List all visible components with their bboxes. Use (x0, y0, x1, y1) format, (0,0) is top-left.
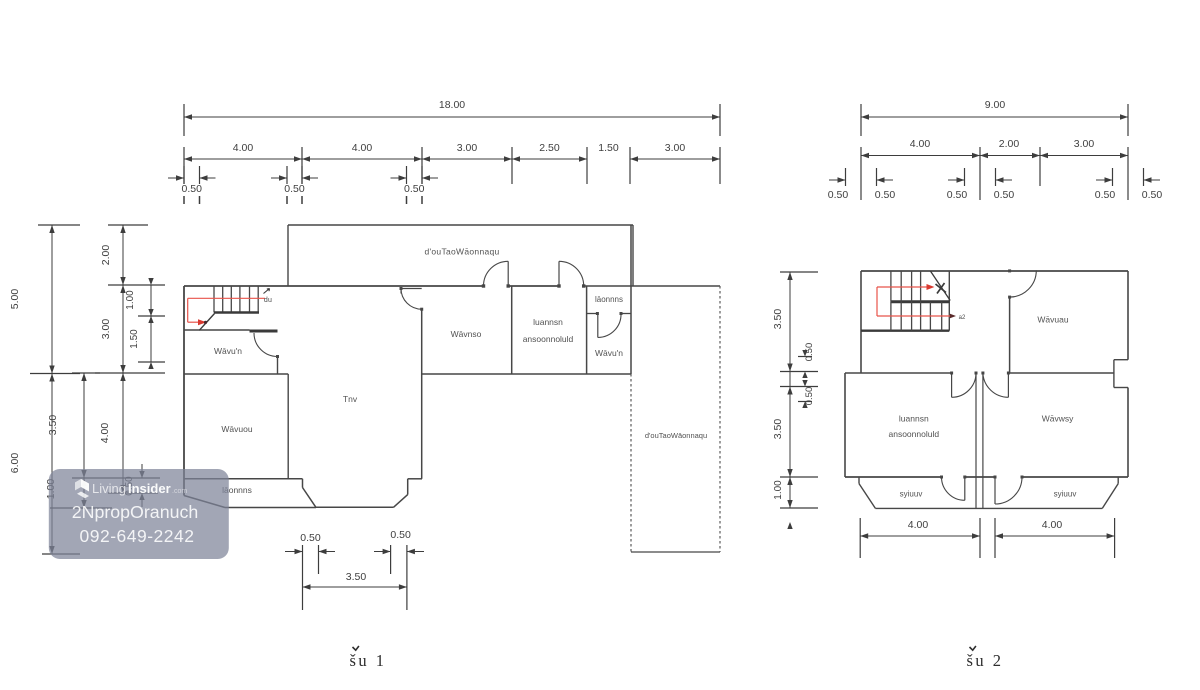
svg-text:4.00: 4.00 (1042, 519, 1063, 531)
svg-text:0.50: 0.50 (390, 529, 411, 541)
svg-text:0.50: 0.50 (1095, 189, 1116, 201)
svg-text:šu 2: šu 2 (966, 651, 1003, 670)
svg-text:3.00: 3.00 (100, 319, 112, 340)
svg-text:3.00: 3.00 (1074, 138, 1095, 150)
svg-text:3.50: 3.50 (47, 415, 59, 436)
svg-text:0.50: 0.50 (300, 532, 321, 544)
svg-text:0.50: 0.50 (947, 189, 968, 201)
svg-text:luannsn: luannsn (533, 317, 563, 327)
svg-text:Wāvu'n: Wāvu'n (214, 346, 242, 356)
svg-text:0.50: 0.50 (1142, 189, 1163, 201)
svg-text:Insider: Insider (128, 481, 171, 496)
svg-text:6.00: 6.00 (9, 453, 21, 474)
svg-text:Wāvnso: Wāvnso (451, 329, 482, 339)
svg-text:syiuuv: syiuuv (900, 489, 923, 498)
svg-text:a2: a2 (959, 315, 966, 321)
svg-text:4.00: 4.00 (99, 423, 111, 444)
svg-text:lāonnns: lāonnns (595, 295, 623, 304)
svg-text:0.50: 0.50 (804, 343, 815, 362)
svg-text:Wāvuau: Wāvuau (1037, 315, 1068, 325)
svg-text:syiuuv: syiuuv (1054, 489, 1077, 498)
svg-text:18.00: 18.00 (439, 99, 465, 111)
svg-text:5.00: 5.00 (9, 289, 21, 310)
svg-text:d'ouTaoWāonnaqu: d'ouTaoWāonnaqu (645, 431, 707, 440)
svg-text:1.50: 1.50 (598, 142, 619, 154)
svg-text:4.00: 4.00 (352, 142, 373, 154)
svg-text:092-649-2242: 092-649-2242 (80, 526, 195, 546)
svg-text:du: du (264, 297, 272, 304)
svg-text:1.50: 1.50 (129, 329, 140, 349)
svg-text:3.50: 3.50 (772, 419, 784, 440)
svg-text:0.50: 0.50 (804, 387, 815, 406)
svg-text:2.00: 2.00 (100, 245, 112, 266)
svg-text:2NpropOranuch: 2NpropOranuch (72, 502, 199, 522)
svg-text:2.50: 2.50 (539, 142, 560, 154)
svg-text:Wāvuou: Wāvuou (221, 424, 252, 434)
svg-text:1.00: 1.00 (773, 480, 784, 500)
svg-text:3.50: 3.50 (346, 571, 367, 583)
svg-text:Wāvu'n: Wāvu'n (595, 348, 623, 358)
svg-text:Wāvwsy: Wāvwsy (1042, 414, 1074, 424)
svg-text:3.00: 3.00 (457, 142, 478, 154)
svg-text:.com: .com (172, 488, 187, 495)
svg-text:2.00: 2.00 (999, 138, 1020, 150)
svg-text:0.50: 0.50 (828, 189, 849, 201)
svg-text:0.50: 0.50 (875, 189, 896, 201)
svg-text:4.00: 4.00 (908, 519, 929, 531)
svg-text:9.00: 9.00 (985, 99, 1006, 111)
svg-text:ansoonnoluld: ansoonnoluld (523, 334, 574, 344)
svg-text:d'ouTaoWāonnaqu: d'ouTaoWāonnaqu (424, 247, 499, 257)
svg-text:4.00: 4.00 (910, 138, 931, 150)
svg-text:Living: Living (92, 481, 126, 496)
svg-text:3.00: 3.00 (665, 142, 686, 154)
svg-text:0.50: 0.50 (404, 183, 425, 195)
svg-text:0.50: 0.50 (284, 183, 305, 195)
svg-text:Tnv: Tnv (343, 394, 358, 404)
svg-text:šu 1: šu 1 (349, 651, 386, 670)
svg-text:0.50: 0.50 (182, 183, 203, 195)
svg-text:1.00: 1.00 (125, 290, 136, 310)
svg-text:ansoonnoluld: ansoonnoluld (889, 429, 940, 439)
svg-text:luannsn: luannsn (899, 414, 929, 424)
svg-text:3.50: 3.50 (772, 309, 784, 330)
svg-text:4.00: 4.00 (233, 142, 254, 154)
svg-text:0.50: 0.50 (994, 189, 1015, 201)
